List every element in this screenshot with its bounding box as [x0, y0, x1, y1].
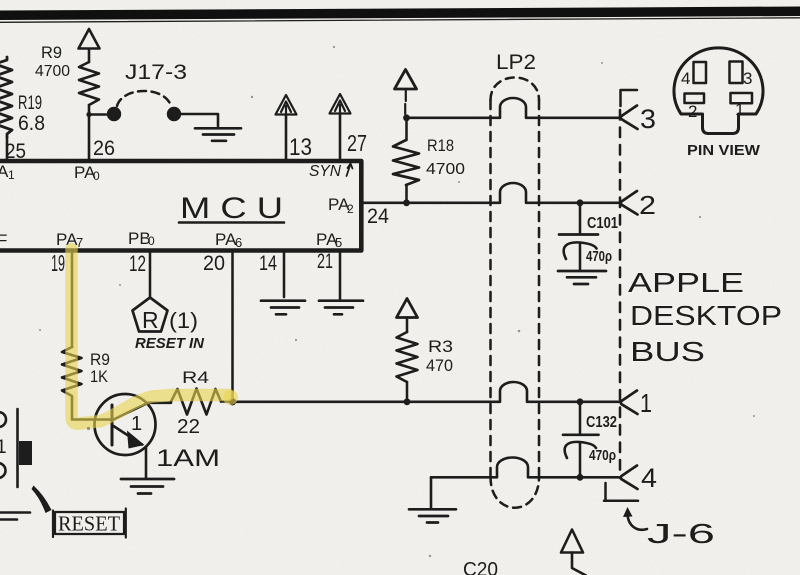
svg-text:5: 5 [335, 235, 342, 250]
bottom stem wire [572, 553, 586, 575]
resistor R9 4700 [79, 62, 99, 105]
jumper J17-3 left terminal dot [107, 107, 121, 121]
wire: emitter to ground [145, 447, 148, 478]
svg-text:19: 19 [51, 250, 65, 276]
svg-text:RESET IN: RESET IN [135, 335, 205, 352]
resistor R18 upper lead [405, 121, 408, 140]
MCU label underline [179, 221, 284, 224]
reset switch stem (cut at left edge) [16, 409, 19, 487]
+5V arrow above pin 27 [330, 94, 351, 114]
svg-text:22: 22 [177, 416, 200, 438]
svg-text:27: 27 [347, 130, 367, 156]
LP2 dashed outline right side [538, 100, 541, 477]
svg-text:1: 1 [640, 388, 652, 418]
svg-text:2: 2 [639, 190, 656, 220]
resistor R18 lower lead [405, 185, 408, 200]
ground (J17-3) [195, 128, 241, 141]
R3 +5V stem [406, 318, 409, 333]
svg-text:LP2: LP2 [496, 51, 536, 74]
RESET box [55, 512, 124, 534]
transistor Q1 emitter stroke [114, 426, 143, 445]
node: C132 / wire4 junction [577, 474, 584, 481]
svg-text:26: 26 [93, 137, 115, 160]
capacitor C132 upper lead [579, 404, 582, 433]
svg-text:1: 1 [0, 437, 7, 458]
svg-text:SYN: SYN [309, 163, 341, 180]
node: R9 / jumper junction [86, 112, 91, 117]
ground (left edge, cut) [0, 513, 30, 520]
svg-text:C132: C132 [586, 414, 617, 431]
svg-text:R4: R4 [182, 368, 209, 387]
switch contact circle lower (cut) [0, 463, 6, 478]
mini-DIN pin 3 slot [730, 62, 743, 84]
mini-DIN connector J6 shell (pin view) [674, 48, 763, 134]
LP2 dashed outline arch [491, 78, 540, 101]
node: R4 / pin20 / wire1 junction [229, 398, 236, 405]
MCU U1 box outline [0, 161, 361, 251]
svg-text:APPLE: APPLE [628, 267, 744, 298]
svg-text:DESKTOP: DESKTOP [630, 300, 782, 331]
yellow highlighter trace PA7-R9-R4 [72, 249, 229, 424]
svg-text:1AM: 1AM [156, 445, 220, 472]
R18 +5V stem (broken) [404, 89, 407, 114]
+5V arrow bottom (C20 area) [561, 530, 583, 553]
J-6 end tick [604, 483, 638, 501]
node: C101 / wire2 junction [577, 199, 584, 206]
svg-text:C20: C20 [463, 559, 498, 575]
svg-text:20: 20 [203, 252, 225, 275]
jumper J17-3 left lead wire [89, 113, 106, 116]
node: C132 / wire1 junction [577, 398, 584, 405]
transistor Q1 emitter arrowhead [127, 431, 145, 449]
wire: wire4 down to ground [430, 477, 433, 508]
svg-text:R: R [142, 307, 159, 333]
resistor R3 470 [397, 332, 418, 382]
svg-text:25: 25 [5, 140, 26, 163]
svg-text:24: 24 [367, 205, 389, 228]
svg-text:F: F [0, 231, 7, 250]
capacitor C132 lower lead [579, 443, 582, 475]
svg-text:4: 4 [681, 69, 690, 88]
node: R3 / wire1 junction [404, 398, 411, 405]
connector pin 2 chevron [621, 191, 638, 215]
jumper J17-3 right lead wire to ground [181, 114, 218, 126]
svg-text:R9: R9 [41, 43, 62, 62]
pin 14 wire [283, 253, 286, 297]
svg-text:6.8: 6.8 [18, 112, 45, 135]
capacitor C132 curved plate [565, 442, 596, 458]
svg-text:RESET: RESET [58, 512, 120, 536]
svg-text:0: 0 [93, 169, 100, 183]
svg-text:12: 12 [129, 251, 146, 276]
pin 13 wire [285, 115, 288, 160]
svg-text:3: 3 [743, 69, 752, 88]
svg-text:470ρ: 470ρ [586, 248, 612, 265]
wire: collector to R4 [148, 401, 171, 404]
pin 27 wire [339, 114, 342, 160]
switch contact circle upper (cut) [0, 412, 6, 427]
svg-text:6: 6 [235, 235, 242, 250]
svg-text:4: 4 [641, 463, 657, 493]
pin 19 (PA7) wire [71, 253, 74, 347]
svg-text:4700: 4700 [35, 63, 70, 80]
+5V arrow above R9 [79, 29, 100, 62]
+5V arrow above pin 13 [276, 95, 297, 115]
J-6 bracket top [621, 90, 638, 106]
LP2 dashed outline left side [489, 100, 492, 477]
svg-text:13: 13 [289, 134, 312, 161]
svg-text:1: 1 [131, 413, 142, 435]
wire: R4 to node [221, 400, 233, 403]
svg-text:M C U: M C U [180, 192, 283, 225]
capacitor C101 top plate [559, 233, 598, 236]
resistor R19 (cut at left edge) [0, 57, 12, 137]
resistor R4 22 [171, 389, 221, 415]
reset-in pentagon symbol R [133, 298, 168, 332]
svg-text:4700: 4700 [426, 161, 465, 178]
node: R18 / pin24 wire junction [403, 199, 410, 206]
svg-text:J-6: J-6 [647, 518, 715, 549]
resistor R3 lower lead [406, 382, 409, 399]
capacitor C101 curved plate [564, 242, 597, 259]
svg-text:C101: C101 [587, 215, 618, 232]
jumper J17-3 dashed arc [117, 91, 171, 106]
+5V arrow above R3 [397, 299, 418, 318]
ground (Q1 emitter) [121, 479, 174, 494]
pin 26 wire / R9 lower lead [88, 105, 91, 159]
svg-text:470ρ: 470ρ [589, 447, 616, 464]
ground (wire 4) [409, 509, 456, 522]
capacitor C101 lower lead [579, 243, 582, 270]
resistor R9 1K [62, 347, 82, 399]
svg-text:BUS: BUS [630, 336, 705, 367]
svg-text:R19: R19 [18, 93, 42, 114]
mini-DIN pin 4 slot [694, 62, 707, 83]
svg-text:470: 470 [426, 356, 453, 375]
SYN up arrow [347, 164, 353, 177]
svg-text:14: 14 [259, 252, 277, 275]
svg-text:1K: 1K [90, 367, 109, 386]
ground (pin 21) [319, 301, 363, 315]
resistor R18 4700 [393, 140, 419, 185]
transistor Q1 base bar [111, 405, 114, 445]
svg-text:2: 2 [347, 202, 354, 216]
svg-text:2: 2 [688, 102, 697, 121]
pin 12 wire [149, 253, 152, 297]
wire: ground to connector 4 with LP2 bump [431, 458, 619, 478]
wire: R9 to transistor base [72, 399, 112, 420]
svg-text:3: 3 [640, 104, 656, 134]
jumper J17-3 right terminal dot [167, 107, 181, 121]
svg-text:PA: PA [215, 230, 237, 249]
svg-text:(1): (1) [169, 308, 198, 333]
capacitor C132 top plate [563, 433, 599, 436]
scan specks [39, 46, 755, 557]
connector pin 3 chevron [621, 106, 638, 130]
reset switch actuator block [19, 441, 32, 465]
connector pin 4 chevron [621, 466, 638, 490]
wire: node to connector 1 with LP2 bump [233, 382, 620, 402]
transistor Q1 circle [95, 394, 156, 455]
top border thin line [0, 18, 800, 23]
pin 25 wire [6, 137, 9, 159]
svg-text:PIN VIEW: PIN VIEW [687, 143, 760, 159]
RESET box side ticks [53, 509, 126, 538]
mini-DIN pin 2 slot [685, 94, 705, 104]
svg-text:J17-3: J17-3 [125, 61, 187, 84]
pin 21 wire [339, 253, 342, 299]
top border bar [0, 7, 800, 21]
capacitor C101 upper lead [579, 205, 582, 233]
J-6 dashed connector line [619, 110, 622, 478]
svg-text:21: 21 [317, 250, 333, 273]
wire: pin 24 (PA2) to connector 2 with LP2 bump [363, 183, 619, 203]
node: wire3 / R18 top junction [403, 114, 410, 121]
ground (C101) [558, 271, 606, 284]
pin 20 (PA6) wire [231, 253, 234, 402]
mini-DIN pin 1 slot [731, 93, 753, 103]
svg-text:R3: R3 [428, 337, 453, 356]
hand-drawn arrow to RESET [32, 486, 52, 514]
+5V arrow above R18 [395, 70, 417, 90]
J-6 callout arrow [628, 514, 648, 530]
ground (pin 14) [261, 301, 305, 315]
wire: +5V to connector 3 with LP2 bump [407, 98, 620, 118]
yellow highlighter end blob [223, 390, 238, 405]
connector pin 1 chevron [621, 391, 638, 415]
LP2 dashed outline bottom U [491, 477, 540, 508]
svg-text:1: 1 [8, 168, 15, 182]
svg-text:R18: R18 [427, 136, 454, 155]
svg-text:0: 0 [148, 234, 155, 248]
transistor Q1 collector stroke [113, 403, 149, 420]
svg-text:1: 1 [735, 100, 744, 119]
